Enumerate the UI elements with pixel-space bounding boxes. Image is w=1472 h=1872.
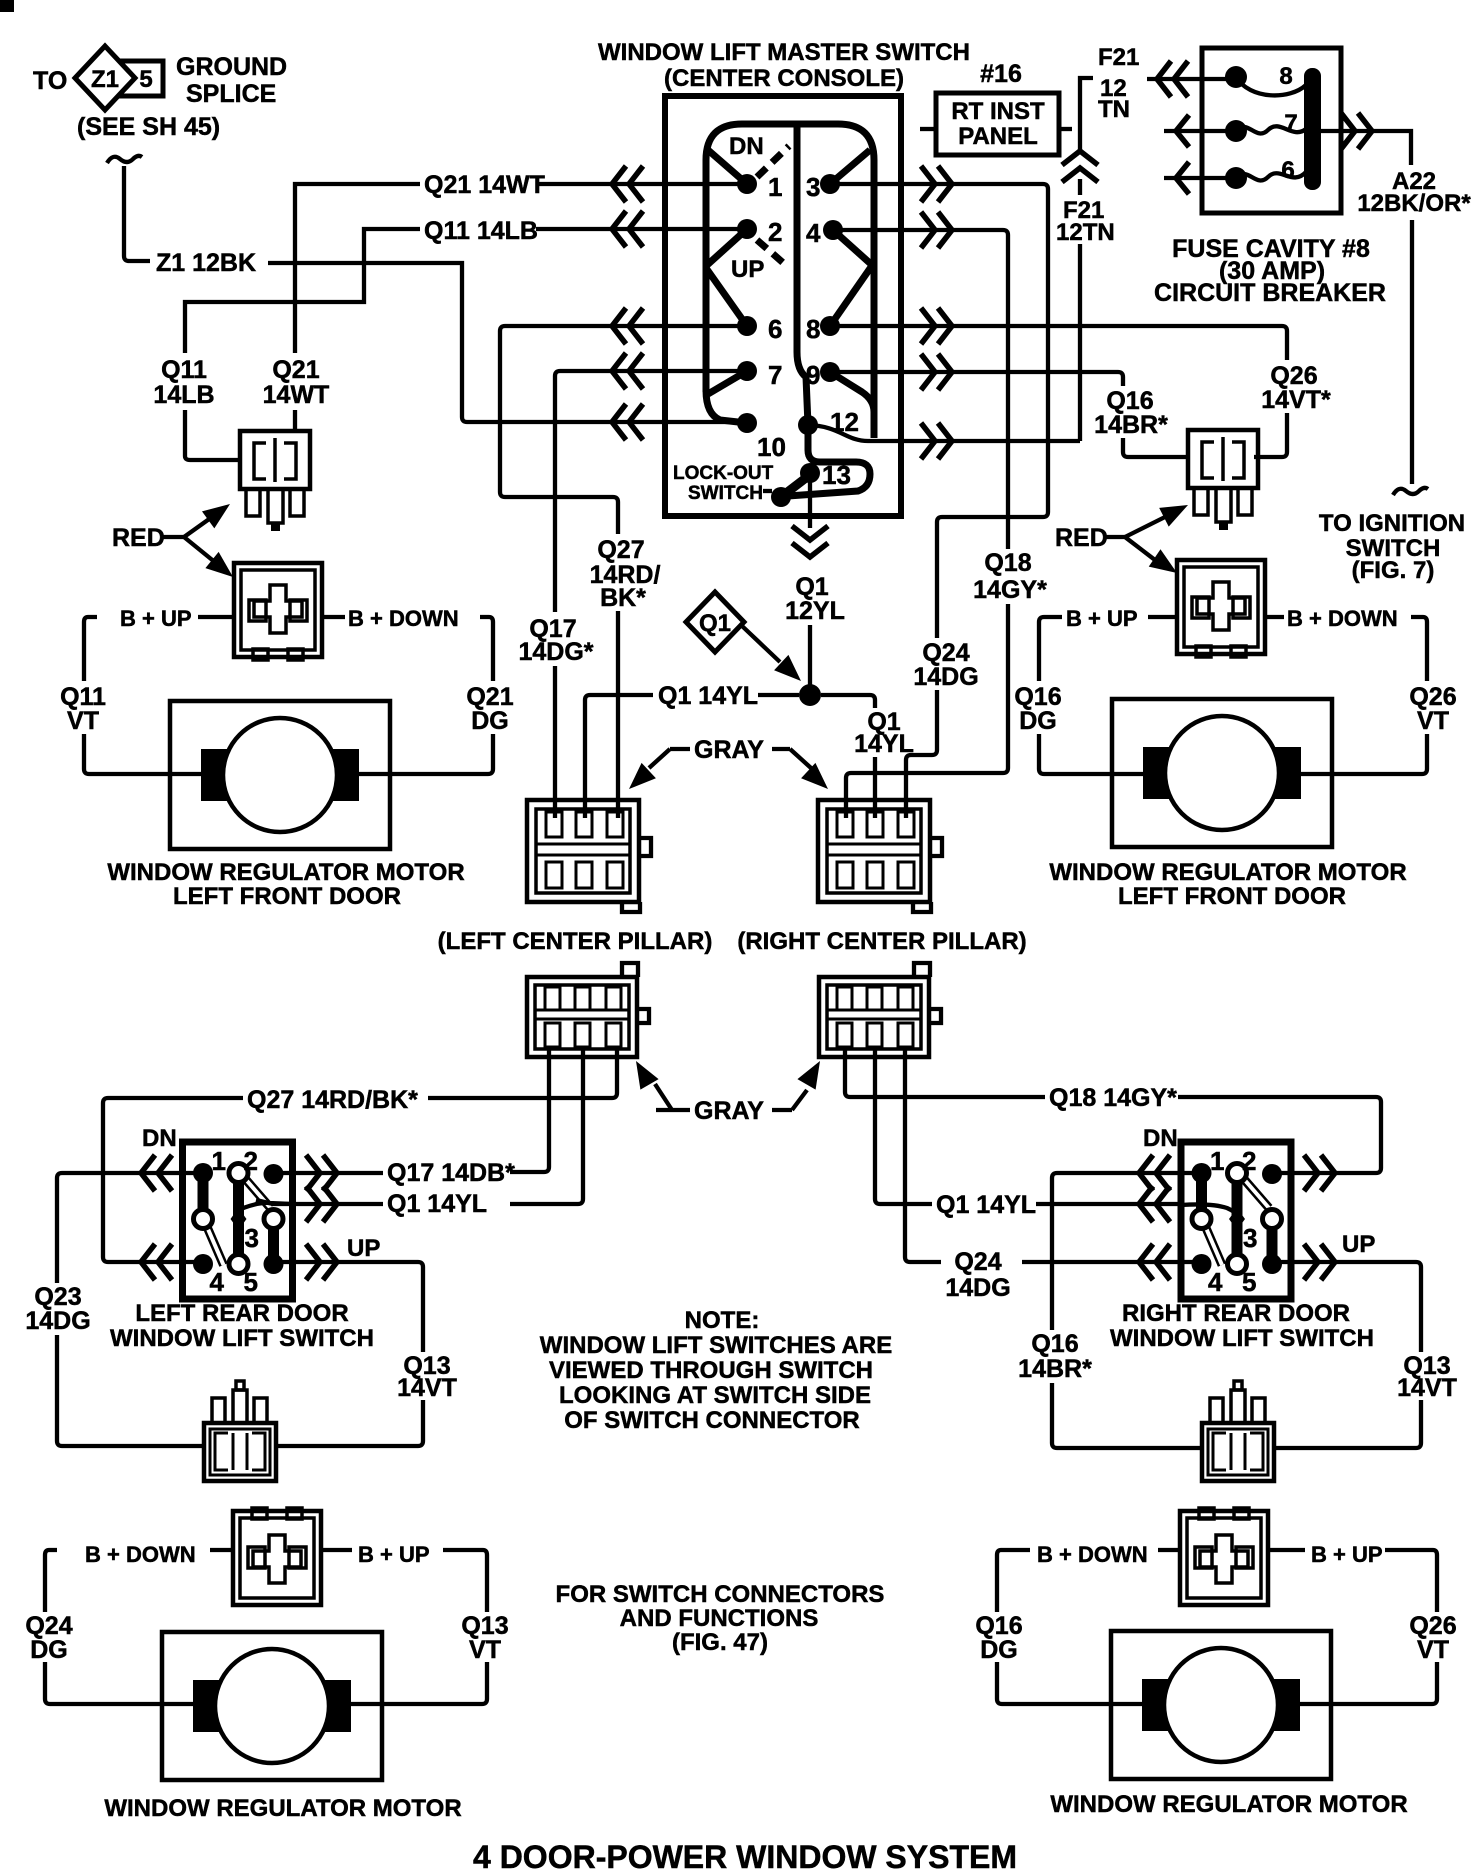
svg-text:B + DOWN: B + DOWN [1037,1542,1148,1567]
svg-text:7: 7 [1284,110,1297,137]
svg-text:14BR*: 14BR* [1018,1355,1092,1383]
svg-text:LOOKING AT SWITCH SIDE: LOOKING AT SWITCH SIDE [559,1382,871,1409]
svg-text:12: 12 [830,407,859,437]
svg-text:Q11: Q11 [161,356,207,384]
svg-text:DG: DG [471,707,509,735]
svg-text:UP: UP [731,256,764,283]
svg-text:NOTE:: NOTE: [685,1307,760,1334]
svg-text:2: 2 [768,217,782,247]
svg-text:Q27 14RD/BK*: Q27 14RD/BK* [247,1086,418,1114]
svg-text:(LEFT CENTER PILLAR): (LEFT CENTER PILLAR) [438,928,713,955]
svg-text:Q1 14YL: Q1 14YL [936,1191,1036,1219]
svg-text:4 DOOR-POWER WINDOW SYSTEM: 4 DOOR-POWER WINDOW SYSTEM [473,1839,1017,1872]
svg-text:B + UP: B + UP [1311,1542,1383,1567]
svg-text:B + UP: B + UP [358,1542,430,1567]
svg-text:LEFT FRONT DOOR: LEFT FRONT DOOR [173,883,401,910]
svg-text:VT: VT [1417,707,1449,735]
svg-text:7: 7 [768,360,782,390]
svg-text:14WT: 14WT [263,381,330,409]
svg-text:12TN: 12TN [1056,219,1115,246]
svg-text:14LB: 14LB [153,381,214,409]
svg-text:14DG: 14DG [25,1307,90,1335]
svg-text:DG: DG [980,1636,1018,1664]
svg-text:DN: DN [1143,1125,1178,1152]
svg-text:FOR SWITCH CONNECTORS: FOR SWITCH CONNECTORS [556,1581,885,1608]
svg-text:OF SWITCH CONNECTOR: OF SWITCH CONNECTOR [564,1407,860,1434]
svg-text:B + UP: B + UP [120,606,192,631]
svg-text:Q21 14WT: Q21 14WT [424,171,545,199]
svg-text:Q16: Q16 [1031,1330,1078,1358]
svg-text:B + DOWN: B + DOWN [1287,606,1398,631]
svg-text:TO: TO [33,67,67,95]
svg-text:14VT: 14VT [397,1374,457,1402]
svg-text:B + DOWN: B + DOWN [85,1542,196,1567]
svg-text:DG: DG [1019,707,1057,735]
svg-text:WINDOW LIFT SWITCH: WINDOW LIFT SWITCH [1110,1325,1374,1352]
svg-text:13: 13 [822,460,851,490]
svg-text:Q1 14YL: Q1 14YL [387,1190,487,1218]
svg-text:14VT: 14VT [1397,1374,1457,1402]
svg-text:14VT*: 14VT* [1261,386,1331,414]
svg-text:Q18 14GY*: Q18 14GY* [1049,1084,1177,1112]
svg-text:WINDOW REGULATOR MOTOR: WINDOW REGULATOR MOTOR [1049,859,1406,886]
svg-text:WINDOW REGULATOR MOTOR: WINDOW REGULATOR MOTOR [1050,1791,1407,1818]
svg-text:VIEWED THROUGH SWITCH: VIEWED THROUGH SWITCH [549,1357,873,1384]
svg-text:(SEE SH 45): (SEE SH 45) [77,113,220,141]
svg-text:RT INST: RT INST [951,98,1045,125]
svg-text:DN: DN [142,1125,177,1152]
svg-text:VT: VT [1417,1636,1449,1664]
svg-text:CIRCUIT BREAKER: CIRCUIT BREAKER [1154,279,1386,307]
svg-text:14GY*: 14GY* [973,576,1047,604]
svg-text:#16: #16 [980,60,1022,88]
svg-text:BK*: BK* [600,584,646,612]
svg-text:Q27: Q27 [597,536,644,564]
svg-text:LOCK-OUT: LOCK-OUT [673,463,774,484]
svg-text:4: 4 [806,218,821,248]
svg-text:12YL: 12YL [785,597,845,625]
svg-text:AND FUNCTIONS: AND FUNCTIONS [620,1605,819,1632]
svg-text:Q11 14LB: Q11 14LB [424,217,538,245]
svg-text:B + DOWN: B + DOWN [348,606,459,631]
svg-text:VT: VT [469,1636,501,1664]
svg-text:3: 3 [806,172,820,202]
svg-text:Q21: Q21 [272,356,319,384]
svg-text:8: 8 [806,314,820,344]
svg-text:WINDOW REGULATOR MOTOR: WINDOW REGULATOR MOTOR [107,859,464,886]
svg-text:10: 10 [757,432,786,462]
svg-text:14DG*: 14DG* [518,638,593,666]
svg-text:F21: F21 [1098,44,1139,71]
svg-text:PANEL: PANEL [958,123,1038,150]
svg-text:5: 5 [139,66,152,93]
svg-text:Z1 12BK: Z1 12BK [156,249,256,277]
svg-text:12BK/OR*: 12BK/OR* [1357,190,1471,217]
svg-text:DG: DG [30,1636,68,1664]
svg-text:Z1: Z1 [91,66,119,93]
svg-text:WINDOW REGULATOR MOTOR: WINDOW REGULATOR MOTOR [104,1795,461,1822]
svg-text:UP: UP [1342,1231,1375,1258]
svg-text:14DG: 14DG [945,1274,1010,1302]
svg-text:UP: UP [347,1235,380,1262]
svg-text:SPLICE: SPLICE [186,80,276,108]
svg-text:Q1: Q1 [699,610,731,637]
svg-text:14BR*: 14BR* [1094,411,1168,439]
svg-text:Q1 14YL: Q1 14YL [658,682,758,710]
svg-text:TO IGNITION: TO IGNITION [1319,510,1465,537]
svg-text:GRAY: GRAY [694,736,764,764]
svg-text:RIGHT REAR DOOR: RIGHT REAR DOOR [1122,1300,1350,1327]
svg-text:14DG: 14DG [913,663,978,691]
svg-text:DN: DN [729,133,764,160]
svg-text:Q24: Q24 [954,1248,1001,1276]
svg-text:8: 8 [1279,63,1292,90]
svg-text:TN: TN [1098,96,1130,123]
svg-text:SWITCH: SWITCH [688,483,763,504]
svg-text:(FIG. 47): (FIG. 47) [672,1629,768,1656]
svg-text:GROUND: GROUND [176,53,287,81]
svg-text:6: 6 [768,314,782,344]
svg-text:WINDOW LIFT SWITCH: WINDOW LIFT SWITCH [110,1325,374,1352]
svg-text:1: 1 [768,172,782,202]
svg-text:WINDOW LIFT MASTER SWITCH: WINDOW LIFT MASTER SWITCH [598,39,970,66]
svg-text:WINDOW LIFT SWITCHES ARE: WINDOW LIFT SWITCHES ARE [540,1332,892,1359]
svg-text:GRAY: GRAY [694,1097,764,1125]
svg-text:(FIG. 7): (FIG. 7) [1352,557,1435,584]
svg-text:6: 6 [1281,157,1294,184]
svg-text:14YL: 14YL [854,730,914,758]
svg-text:RED: RED [112,524,165,552]
svg-text:RED: RED [1055,524,1108,552]
svg-text:VT: VT [67,707,99,735]
svg-text:9: 9 [806,360,820,390]
svg-text:(CENTER CONSOLE): (CENTER CONSOLE) [664,65,904,92]
svg-text:(RIGHT CENTER PILLAR): (RIGHT CENTER PILLAR) [737,928,1026,955]
svg-text:LEFT FRONT DOOR: LEFT FRONT DOOR [1118,883,1346,910]
svg-text:LEFT REAR DOOR: LEFT REAR DOOR [135,1300,348,1327]
svg-text:Q17 14DB*: Q17 14DB* [387,1159,515,1187]
svg-text:Q18: Q18 [984,549,1031,577]
svg-text:B + UP: B + UP [1066,606,1138,631]
